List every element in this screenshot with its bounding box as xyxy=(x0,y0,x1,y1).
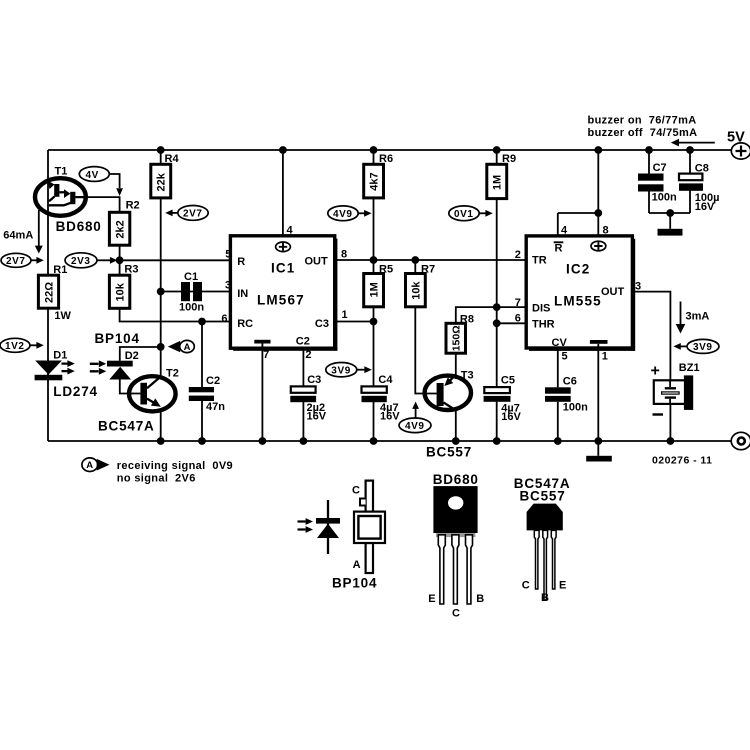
wire C7 branch xyxy=(649,150,690,213)
svg-text:2: 2 xyxy=(515,249,521,261)
svg-text:C7: C7 xyxy=(653,162,667,174)
transistor T1 circle xyxy=(35,178,86,216)
svg-text:LM555: LM555 xyxy=(554,294,602,309)
svg-text:THR: THR xyxy=(532,319,555,331)
svg-text:R: R xyxy=(555,243,563,255)
wire T1 base to R2 top xyxy=(86,197,120,212)
junction 0V rail C4 xyxy=(370,437,378,445)
svg-text:6: 6 xyxy=(515,313,521,325)
svg-text:C4: C4 xyxy=(378,374,393,386)
svg-text:1: 1 xyxy=(602,350,608,362)
op-amp/IC U1 : IC1 LM567 box xyxy=(221,224,347,361)
svg-text:C2: C2 xyxy=(206,375,220,387)
svg-text:4: 4 xyxy=(561,225,568,237)
svg-text:C6: C6 xyxy=(563,375,577,387)
svg-text:5V: 5V xyxy=(727,130,745,146)
svg-text:BP104: BP104 xyxy=(95,331,140,346)
0V output terminal xyxy=(731,432,750,449)
svg-text:C2: C2 xyxy=(296,335,310,347)
svg-text:64mA: 64mA xyxy=(3,230,33,242)
svg-text:OUT: OUT xyxy=(305,255,329,267)
BC547A/BC557 package drawing xyxy=(514,476,571,604)
svg-text:1M: 1M xyxy=(492,175,504,190)
node 3V9 measuring oval (at C4) xyxy=(326,363,372,377)
svg-text:5: 5 xyxy=(225,249,231,261)
node 2V3 junction dot xyxy=(116,256,124,264)
node A terminal (at T2 collector) xyxy=(168,340,195,353)
junction OUT line R7 xyxy=(411,256,419,264)
svg-text:buzzer on 76/77mA: buzzer on 76/77mA xyxy=(588,115,697,127)
junction top rail IC1 pin4 xyxy=(279,146,287,154)
svg-text:7: 7 xyxy=(515,297,521,309)
junction IC2 top link xyxy=(594,209,602,217)
junction 0V rail IC2 pin1 xyxy=(594,437,602,445)
svg-text:6: 6 xyxy=(221,313,227,325)
wire R6 R5 C4 branch xyxy=(373,150,375,386)
svg-text:100n: 100n xyxy=(652,191,677,203)
wire R4 branch vertical (top rail to node A) xyxy=(160,150,162,379)
junction top rail IC2 pin8 xyxy=(594,146,602,154)
wire IC1 pin 7 to 0V xyxy=(261,348,263,441)
svg-text:R5: R5 xyxy=(379,264,393,276)
wire bottom 0V rail xyxy=(48,440,731,442)
resistor R1 xyxy=(38,264,71,322)
svg-text:3: 3 xyxy=(635,280,641,292)
junction top rail R9 xyxy=(493,146,501,154)
wire R8 bottom to T3 emitter xyxy=(455,353,457,379)
svg-text:020276 - 11: 020276 - 11 xyxy=(652,455,712,467)
wire C2 top xyxy=(201,322,203,388)
svg-text:1W: 1W xyxy=(54,310,71,322)
svg-text:LM567: LM567 xyxy=(257,293,305,308)
wire ground stub of C7 C8 xyxy=(669,213,671,229)
svg-text:RC: RC xyxy=(237,318,253,330)
svg-text:22k: 22k xyxy=(156,172,168,191)
wire C3 bottom xyxy=(302,402,304,441)
node C1/R4 junction dot xyxy=(157,288,165,296)
svg-text:0V1: 0V1 xyxy=(454,209,474,220)
svg-text:5: 5 xyxy=(562,350,568,362)
svg-text:22Ω: 22Ω xyxy=(44,282,56,303)
junction top rail C7 xyxy=(645,146,653,154)
junction 0V rail C5 xyxy=(493,437,501,445)
3mA current arrow xyxy=(676,302,710,334)
svg-text:1: 1 xyxy=(342,309,348,321)
svg-text:16V: 16V xyxy=(380,411,400,423)
svg-text:10k: 10k xyxy=(115,282,127,301)
wire C5 bottom xyxy=(496,402,498,441)
64mA current arrow xyxy=(3,210,43,254)
capacitor C1 xyxy=(179,271,204,314)
svg-text:C: C xyxy=(452,608,460,620)
svg-text:4k7: 4k7 xyxy=(369,172,381,190)
resistor R4 xyxy=(151,153,180,198)
wire top supply rail xyxy=(48,149,732,151)
junction 0V rail C2 xyxy=(198,437,206,445)
wire buzzer to 0V rail xyxy=(669,404,671,441)
svg-text:T3: T3 xyxy=(461,370,474,382)
wire IC2 pin 1 to 0V xyxy=(597,348,599,441)
diode D2 (photodiode BP104) xyxy=(90,331,140,380)
junction 0V rail T2 xyxy=(157,437,165,445)
svg-text:E: E xyxy=(559,580,566,592)
svg-text:3V9: 3V9 xyxy=(331,366,351,377)
svg-text:BC557: BC557 xyxy=(520,489,566,504)
node 4V9 measuring oval (at T3 base) xyxy=(399,402,431,433)
svg-text:CV: CV xyxy=(552,337,568,349)
wire THR line to IC2 pin 6 xyxy=(497,322,527,324)
wire C1 to IC1 pin 3 IN xyxy=(161,291,231,293)
svg-text:4V9: 4V9 xyxy=(405,421,425,432)
resistor R7 xyxy=(406,264,436,307)
capacitor C8 (electrolytic) xyxy=(679,163,720,213)
svg-text:2V7: 2V7 xyxy=(6,256,26,267)
svg-text:no signal 2V6: no signal 2V6 xyxy=(117,473,196,485)
svg-text:3V9: 3V9 xyxy=(693,342,713,353)
wire ground stub below 0V rail xyxy=(597,441,599,456)
node 2V3 measuring oval xyxy=(65,253,117,268)
svg-text:3: 3 xyxy=(225,280,231,292)
capacitor C5 (electrolytic) xyxy=(484,375,522,423)
wire R2 bottom to R3 top xyxy=(119,245,121,275)
svg-text:D2: D2 xyxy=(125,350,139,362)
junction 0V rail C3 xyxy=(300,437,308,445)
svg-text:A: A xyxy=(86,460,93,471)
svg-text:A: A xyxy=(184,342,191,353)
wire IC1 pin 1 C3 line xyxy=(335,321,374,323)
node 2V7 measuring oval (left rail) xyxy=(1,253,44,267)
svg-text:R4: R4 xyxy=(165,153,180,165)
svg-text:C1: C1 xyxy=(184,271,198,283)
svg-text:47n: 47n xyxy=(206,401,225,413)
junction 0V rail C6 xyxy=(554,437,562,445)
svg-text:OUT: OUT xyxy=(601,286,625,298)
node 4V measuring oval xyxy=(79,167,123,196)
svg-text:2V3: 2V3 xyxy=(71,256,91,267)
node 4V9 measuring oval (at R6) xyxy=(328,206,372,221)
svg-text:2V7: 2V7 xyxy=(183,209,203,220)
svg-text:7: 7 xyxy=(263,349,269,361)
junction top rail R6 xyxy=(370,146,378,154)
junction pin1 line R5/C4 xyxy=(370,318,378,326)
svg-text:E: E xyxy=(428,593,435,605)
svg-text:LD274: LD274 xyxy=(53,384,98,399)
wire IC2 pin 3 OUT to buzzer xyxy=(632,292,670,381)
svg-text:1M: 1M xyxy=(369,282,381,297)
svg-text:R3: R3 xyxy=(124,264,138,276)
wire R8 top to IC2 pin 7 DIS xyxy=(456,307,526,323)
wire IC1 OUT to IC2 TR xyxy=(335,259,527,261)
svg-text:16V: 16V xyxy=(501,411,521,423)
svg-text:16V: 16V xyxy=(695,201,715,213)
op-amp/IC U2 : IC2 LM555 box xyxy=(515,225,641,363)
svg-text:receiving signal 0V9: receiving signal 0V9 xyxy=(117,460,233,472)
transistor T3 circle xyxy=(425,376,471,410)
node A junction dot xyxy=(157,343,165,351)
wire left rail (T1 emitter/collector branch) xyxy=(47,150,49,441)
junction 0V rail buzzer xyxy=(667,437,675,445)
transistor T3 internals (PNP BC557) xyxy=(437,375,456,411)
svg-text:IC2: IC2 xyxy=(566,262,590,277)
svg-text:C3: C3 xyxy=(307,374,321,386)
wire D2 anode to T2 base xyxy=(120,379,141,393)
svg-text:R7: R7 xyxy=(421,264,435,276)
svg-text:R: R xyxy=(237,256,245,268)
capacitor C7 xyxy=(638,162,677,203)
svg-text:R8: R8 xyxy=(460,313,474,325)
svg-text:100n: 100n xyxy=(179,302,204,314)
junction top rail C8 xyxy=(686,146,694,154)
junction THR line R9 xyxy=(493,319,501,327)
node 2V7 measuring oval (at R4) xyxy=(165,206,208,221)
wire C6 bottom xyxy=(557,402,559,441)
svg-text:BC547A: BC547A xyxy=(98,419,155,434)
node 3V9 measuring oval (at buzzer) xyxy=(673,339,719,353)
svg-text:C5: C5 xyxy=(501,375,515,387)
svg-text:R2: R2 xyxy=(126,200,140,212)
transistor T1 internals (PNP darlington BD680) xyxy=(48,181,87,206)
svg-text:100n: 100n xyxy=(563,401,588,413)
svg-text:4V: 4V xyxy=(86,170,99,181)
transistor T2 circle xyxy=(129,376,176,411)
wire node 2V3 to IC1 pin 5 R xyxy=(120,259,231,261)
svg-text:1V2: 1V2 xyxy=(5,341,25,352)
svg-text:BC557: BC557 xyxy=(426,445,472,460)
junction DIS line R9 xyxy=(493,303,501,311)
svg-text:3mA: 3mA xyxy=(686,310,710,322)
svg-text:150Ω: 150Ω xyxy=(451,325,463,351)
junction OUT line R6/R5 xyxy=(370,256,378,264)
wire IC2 pin 5 CV to C6 xyxy=(557,348,559,387)
svg-text:+: + xyxy=(651,363,660,380)
svg-text:IN: IN xyxy=(237,288,248,300)
svg-text:D1: D1 xyxy=(53,349,67,361)
resistor R8 xyxy=(446,313,474,353)
wire IC2 pin 8 to rail xyxy=(597,150,599,236)
diode D1 (LED LD274) xyxy=(35,349,98,399)
svg-text:8: 8 xyxy=(341,249,347,261)
supply current arrow xyxy=(671,139,715,147)
wire R9 branch vertical xyxy=(496,150,498,387)
transistor T2 internals (NPN BC547A) xyxy=(140,376,161,406)
junction C7/C8 ground xyxy=(666,209,674,217)
+5V supply terminal xyxy=(727,130,750,160)
resistor R6 xyxy=(364,153,393,198)
svg-text:DIS: DIS xyxy=(532,303,550,315)
svg-text:BD680: BD680 xyxy=(433,472,479,487)
svg-text:IC1: IC1 xyxy=(271,260,295,275)
svg-text:BZ1: BZ1 xyxy=(679,362,700,374)
svg-text:R6: R6 xyxy=(379,153,393,165)
svg-text:buzzer off 74/75mA: buzzer off 74/75mA xyxy=(588,127,698,139)
node 0V1 measuring oval (at R9) xyxy=(449,206,493,221)
node 1V2 measuring oval xyxy=(0,338,44,352)
svg-text:BD680: BD680 xyxy=(56,219,102,234)
capacitor C3 (electrolytic) xyxy=(290,374,326,422)
buzzer BZ1 xyxy=(651,362,700,414)
ground symbol (below 0V rail) xyxy=(586,456,612,462)
svg-text:C8: C8 xyxy=(695,163,709,175)
svg-text:2k2: 2k2 xyxy=(115,220,127,238)
node A legend symbol xyxy=(82,458,110,472)
wire IC1 pin 4 to rail xyxy=(282,150,284,236)
wire C8 branch xyxy=(689,150,691,213)
wire IC1 pin 2 to C3 xyxy=(302,348,304,386)
BD680 package drawing xyxy=(428,472,484,620)
wire IC2 pin 4 link xyxy=(558,213,599,236)
svg-text:4V9: 4V9 xyxy=(333,209,353,220)
junction top rail R4 xyxy=(157,146,165,154)
svg-text:TR: TR xyxy=(532,255,547,267)
capacitor C4 (electrolytic) xyxy=(362,374,401,422)
wire T3 collector to 0V xyxy=(455,409,457,441)
svg-text:8: 8 xyxy=(603,225,609,237)
wire R7 branch to T3 base xyxy=(415,260,436,394)
svg-text:BP104: BP104 xyxy=(332,576,377,591)
svg-text:16V: 16V xyxy=(307,411,327,423)
node C2/RC junction dot xyxy=(198,318,206,326)
ground symbol (C7/C8) xyxy=(658,229,683,236)
svg-text:A: A xyxy=(353,559,361,571)
capacitor C2 xyxy=(189,375,225,413)
resistor R5 xyxy=(364,264,393,307)
svg-text:R1: R1 xyxy=(53,264,67,276)
svg-text:C: C xyxy=(352,485,360,497)
svg-text:T2: T2 xyxy=(166,368,179,380)
svg-text:2: 2 xyxy=(305,349,311,361)
junction 0V rail IC1 pin7 xyxy=(259,437,267,445)
svg-text:10k: 10k xyxy=(410,281,422,300)
BP104 package drawing xyxy=(298,481,386,591)
svg-text:C3: C3 xyxy=(315,318,329,330)
capacitor C6 xyxy=(545,375,588,413)
svg-text:B: B xyxy=(541,592,549,604)
svg-text:T1: T1 xyxy=(55,166,68,178)
svg-text:4: 4 xyxy=(287,224,294,236)
svg-text:R9: R9 xyxy=(502,153,516,165)
resistor R3 xyxy=(109,264,138,309)
resistor R9 xyxy=(487,153,516,199)
wire C4 bottom xyxy=(373,402,375,441)
wire R3 bottom to IC1 pin 6 RC xyxy=(120,308,231,321)
junction 0V rail T3 xyxy=(452,437,460,445)
wire C2 bottom xyxy=(201,401,203,441)
wire node A to D2 cathode xyxy=(120,347,161,361)
svg-text:B: B xyxy=(476,593,484,605)
wire T2 emitter to 0V rail xyxy=(160,410,162,442)
svg-text:C: C xyxy=(522,580,530,592)
resistor R2 xyxy=(109,200,139,246)
